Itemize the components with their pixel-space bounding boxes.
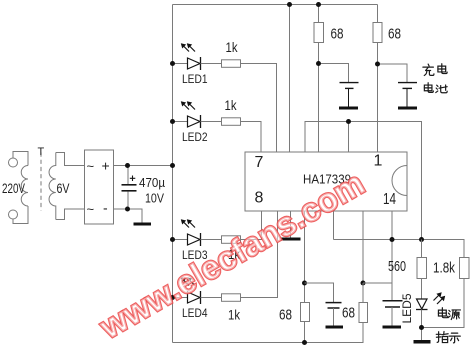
op-amp U1 notch bbox=[392, 166, 407, 196]
node pin2 tap bbox=[346, 119, 351, 124]
label power indicator 指示 bbox=[436, 331, 448, 342]
capacitor C3 stem bbox=[391, 307, 393, 326]
LED1 bbox=[170, 39, 277, 152]
svg-text:220V: 220V bbox=[2, 180, 25, 196]
wire pin14 column bbox=[391, 211, 393, 301]
svg-text:1k: 1k bbox=[228, 307, 241, 323]
svg-text:68: 68 bbox=[388, 26, 401, 43]
LED5 cathode bar bbox=[416, 309, 428, 311]
ground below rectifier bbox=[134, 223, 152, 226]
svg-text:+: + bbox=[102, 158, 110, 174]
resistor R2 1k body bbox=[222, 118, 241, 126]
wire LED4 anode bbox=[173, 297, 188, 299]
transformer T primary terminal top bbox=[9, 158, 18, 167]
ground below B2 bbox=[398, 107, 417, 110]
node B2 tap bbox=[375, 62, 380, 67]
svg-text:LED2: LED2 bbox=[182, 132, 208, 144]
wire LED2 to resistor bbox=[201, 121, 222, 123]
node LED4 anode bbox=[170, 295, 175, 300]
wire LED1 anode bbox=[173, 63, 188, 65]
wire R4 to IC pin10 bbox=[241, 211, 278, 298]
transformer T core bbox=[40, 153, 42, 211]
LED1 arrows bbox=[184, 46, 190, 52]
battery B1 branch wire bbox=[319, 64, 349, 83]
svg-text:LED5: LED5 bbox=[402, 294, 414, 324]
wire pin13 to C3 bbox=[363, 282, 392, 284]
node supply-cap junction bbox=[125, 163, 130, 168]
wire pin2 drop bbox=[348, 122, 350, 153]
resistor R3 1k body bbox=[222, 236, 241, 244]
svg-text:470µ: 470µ bbox=[139, 175, 165, 190]
wire secondary bottom lead bbox=[56, 209, 85, 220]
resistor R6 68 chain bbox=[377, 5, 379, 153]
resistor R4 1k body bbox=[222, 294, 241, 302]
battery B2 branch wire bbox=[378, 64, 408, 82]
node R7 to rail bbox=[302, 340, 307, 345]
bridge rectifier bbox=[85, 150, 114, 224]
op-amp U1 HA17339 body bbox=[245, 152, 407, 211]
node B1 tap bbox=[316, 61, 321, 66]
node rail R5 bbox=[316, 2, 321, 7]
node rail pin3 bbox=[287, 2, 292, 7]
wire R10 bottom link bbox=[422, 279, 465, 328]
svg-text:LED4: LED4 bbox=[182, 308, 208, 320]
wire pin12 to y239 line bbox=[333, 211, 335, 240]
capacitor C2 stem bbox=[333, 308, 335, 326]
node supply to bus bbox=[170, 163, 175, 168]
svg-text:~: ~ bbox=[87, 159, 95, 174]
svg-text:LED1: LED1 bbox=[182, 74, 208, 86]
capacitor C1 470u stem bottom bbox=[127, 192, 129, 210]
wire pin11 to C2 bbox=[305, 283, 334, 303]
node pin14 bus bbox=[390, 237, 395, 242]
node LED1 anode bbox=[170, 61, 175, 66]
svg-text:68: 68 bbox=[279, 307, 292, 324]
wire primary top lead bbox=[13, 152, 28, 166]
capacitor C1 470u stem top bbox=[127, 166, 129, 185]
resistor R8 68 body bbox=[359, 303, 368, 323]
ground below C2 bbox=[326, 326, 344, 329]
svg-text:-: - bbox=[103, 200, 108, 216]
wire R1 to IC pin6 bbox=[241, 64, 277, 153]
LED4 triangle bbox=[188, 292, 201, 303]
capacitor C1 470u plates bbox=[122, 184, 137, 186]
svg-text:14: 14 bbox=[383, 191, 396, 208]
wire R3 to IC pin9 bbox=[241, 211, 262, 240]
wire LED4 to resistor bbox=[201, 297, 222, 299]
LED3 cathode bar bbox=[200, 233, 202, 246]
wire rail to IC pin3 bbox=[289, 5, 291, 153]
svg-text:T: T bbox=[38, 146, 45, 158]
battery B1 stem bbox=[348, 88, 350, 106]
node 560 bus bbox=[419, 237, 424, 242]
LED4 arrows bbox=[184, 280, 190, 286]
wire pin11 column bbox=[304, 211, 306, 343]
svg-text:10V: 10V bbox=[145, 191, 164, 206]
svg-text:560: 560 bbox=[388, 258, 406, 275]
wire LED3 anode bbox=[173, 239, 188, 241]
LED3 arrows bbox=[184, 222, 190, 228]
battery B1 plates bbox=[340, 82, 359, 84]
node minus-cap junction bbox=[125, 207, 130, 212]
ground below C3 bbox=[383, 326, 402, 329]
LED4 bbox=[170, 211, 278, 323]
wire LED3 to resistor bbox=[201, 239, 222, 241]
node pin13 tap bbox=[361, 281, 366, 286]
wire LED2 anode bbox=[173, 121, 188, 123]
label + of C1 bbox=[130, 176, 136, 182]
capacitor C3 plates bbox=[383, 300, 403, 302]
wire LED1 to resistor bbox=[201, 63, 222, 65]
wire IC ground pin bbox=[290, 211, 292, 238]
svg-text:1k: 1k bbox=[225, 97, 238, 113]
transformer T secondary winding bbox=[49, 153, 56, 220]
wire bottom ground rail bbox=[173, 342, 364, 344]
wire R9 stems bbox=[421, 240, 423, 300]
wire rectifier plus output bbox=[114, 165, 173, 167]
ground below LED5 bbox=[414, 340, 431, 344]
wire pin13 column bbox=[362, 211, 364, 283]
svg-text:1k: 1k bbox=[226, 39, 239, 55]
transformer T primary terminal bottom bbox=[9, 210, 18, 219]
transformer T primary winding bbox=[21, 166, 28, 207]
ground below IC bbox=[281, 238, 301, 241]
wire secondary top lead bbox=[56, 153, 85, 166]
svg-text:68: 68 bbox=[331, 26, 344, 43]
LED5 triangle bbox=[417, 299, 428, 309]
label charging battery 充电 bbox=[423, 64, 434, 75]
wire R8 stems bbox=[362, 283, 364, 343]
capacitor C2 plates bbox=[326, 302, 342, 304]
LED1 triangle bbox=[188, 58, 201, 69]
svg-text:1.8k: 1.8k bbox=[433, 260, 455, 277]
svg-text:6V: 6V bbox=[57, 180, 71, 196]
wire left vertical bus bbox=[172, 5, 174, 343]
wire R2 to IC pin7 bbox=[241, 122, 262, 153]
resistor R5 68 chain bbox=[318, 5, 320, 153]
LED2 cathode bar bbox=[200, 115, 202, 128]
node pin11 tap bbox=[302, 281, 307, 286]
resistor R1 1k body bbox=[222, 60, 241, 68]
LED4 cathode bar bbox=[200, 291, 202, 304]
svg-text:1: 1 bbox=[374, 153, 383, 170]
resistor R10 1.8k body bbox=[460, 258, 470, 279]
watermark www.elecfans.com bbox=[93, 165, 371, 347]
resistor R7 68 body bbox=[301, 303, 310, 322]
LED3 bbox=[170, 211, 262, 262]
wire rectifier minus output bbox=[114, 209, 143, 223]
svg-text:68: 68 bbox=[342, 305, 355, 322]
wire reference net pin4 to right column bbox=[305, 122, 422, 240]
svg-text:8: 8 bbox=[255, 190, 264, 207]
wire primary bottom lead bbox=[13, 206, 28, 224]
node LED5 bottom bbox=[419, 325, 424, 330]
resistor R5 68 body bbox=[314, 23, 324, 43]
svg-text:7: 7 bbox=[255, 154, 264, 171]
label power indicator 电源 bbox=[438, 308, 447, 318]
battery B2 plates bbox=[398, 82, 417, 84]
LED2 arrows bbox=[184, 104, 190, 110]
LED3 triangle bbox=[188, 234, 201, 245]
node LED2 anode bbox=[170, 119, 175, 124]
wire LED5 cathode down bbox=[421, 310, 423, 341]
LED1 cathode bar bbox=[200, 57, 202, 70]
resistor R9 560 body bbox=[417, 258, 427, 279]
ground below B1 bbox=[339, 107, 358, 110]
wire top supply rail bbox=[173, 4, 378, 6]
wire output bus y239 bbox=[334, 240, 465, 258]
svg-text:~: ~ bbox=[87, 202, 95, 217]
label charging battery 电池 bbox=[424, 83, 433, 93]
resistor R6 68 body bbox=[373, 23, 382, 43]
LED2 triangle bbox=[188, 116, 201, 127]
battery B2 stem bbox=[406, 88, 408, 106]
node LED3 anode bbox=[170, 237, 175, 242]
LED2 bbox=[170, 97, 261, 152]
LED5 arrows bbox=[434, 295, 440, 301]
